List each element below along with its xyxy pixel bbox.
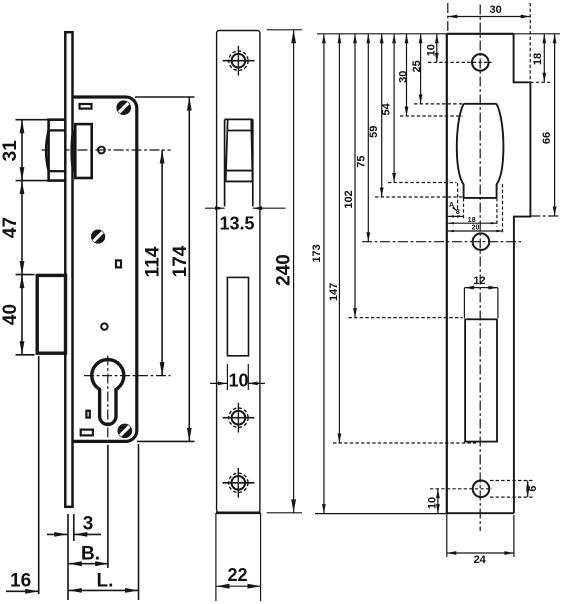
euro cylinder profile xyxy=(92,360,124,425)
svg-text:25: 25 xyxy=(411,60,423,72)
svg-text:10: 10 xyxy=(426,44,438,56)
svg-text:102: 102 xyxy=(343,190,355,208)
deadbolt cutout xyxy=(465,319,497,441)
bottom screw hole xyxy=(473,481,490,498)
dim 12 extensions xyxy=(463,288,465,318)
dim 6 xyxy=(527,481,529,498)
deadbolt (thrown, left of faceplate) xyxy=(37,275,65,353)
plate stepped right edge xyxy=(514,34,531,513)
screw hole bottom xyxy=(223,468,255,498)
plate top edge xyxy=(447,33,514,35)
lock case outline xyxy=(73,97,137,441)
dim 114 line xyxy=(161,150,163,376)
small slot left of cylinder xyxy=(86,411,89,418)
middle slot in case xyxy=(116,260,121,267)
dim 3 (faceplate thickness) xyxy=(47,533,68,535)
screw hole top xyxy=(223,46,255,76)
dim 18 (right) xyxy=(543,34,545,83)
screw top xyxy=(116,100,131,115)
faceplate outline xyxy=(217,31,260,513)
lock body (left side view) xyxy=(0,32,195,600)
svg-text:240: 240 xyxy=(274,254,295,286)
top slot in case xyxy=(80,104,92,109)
screw bottom xyxy=(118,424,133,439)
svg-text:173: 173 xyxy=(311,244,323,262)
faceplate bottom edge (thick) xyxy=(216,511,261,514)
dash-dot for 66 step reference xyxy=(530,215,561,217)
svg-text:6: 6 xyxy=(527,485,539,491)
dim 240 extension top xyxy=(267,29,303,31)
top hole centre dashes xyxy=(428,61,492,63)
svg-text:10: 10 xyxy=(426,497,438,509)
dim 30 top extensions xyxy=(447,3,449,34)
screw middle xyxy=(91,230,105,244)
dim 240 line xyxy=(293,30,295,513)
dim chain line 31/47/40 xyxy=(21,120,23,355)
middle screw hole xyxy=(473,233,490,250)
dim 20 xyxy=(448,230,503,232)
svg-text:59: 59 xyxy=(368,126,380,138)
plate bottom edge xyxy=(447,512,514,514)
strike/mounting plate view (right) xyxy=(311,3,561,566)
extension line, case bottom to 174 dim xyxy=(137,440,195,442)
svg-text:13.5: 13.5 xyxy=(219,214,254,234)
svg-text:114: 114 xyxy=(143,246,164,277)
dim 10 bottom line xyxy=(437,489,439,514)
dim 8 xyxy=(448,215,464,217)
svg-text:47: 47 xyxy=(0,217,21,238)
dim 18 (cutout) xyxy=(448,222,497,224)
dim 22 line xyxy=(216,585,261,587)
cylinder horizontal centre line xyxy=(84,375,171,377)
dim 66 (right) xyxy=(554,34,556,216)
dim 13.5 (latch cutout width) xyxy=(205,207,225,209)
latch bolt front face xyxy=(226,119,253,181)
dash for 18 step reference xyxy=(530,81,550,83)
screw hole middle xyxy=(223,403,255,433)
dashed extensions below barrel xyxy=(457,183,459,211)
dim 174 line xyxy=(188,97,190,441)
backset extension line xyxy=(107,445,109,568)
dim B. (backset) xyxy=(68,563,108,565)
dim L. (case depth) xyxy=(68,589,138,591)
latch spring lens at faceplate xyxy=(70,130,76,173)
svg-text:18: 18 xyxy=(532,53,544,65)
svg-text:L.: L. xyxy=(97,571,114,592)
svg-text:174: 174 xyxy=(170,245,191,277)
dim 75 xyxy=(367,34,369,242)
latch bolt tail xyxy=(75,124,91,178)
svg-text:147: 147 xyxy=(328,283,340,301)
dim 24 extensions xyxy=(446,515,448,557)
extension line faceplate rear xyxy=(73,514,75,541)
deadbolt cutout xyxy=(227,277,248,355)
extension line case rear xyxy=(138,444,140,600)
svg-text:22: 22 xyxy=(227,565,247,585)
dim 16 (deadbolt throw) xyxy=(6,590,39,592)
dim 24 line xyxy=(447,552,514,554)
dim 12 line xyxy=(464,287,498,289)
dim 25 xyxy=(420,34,422,104)
latch centre line xyxy=(42,149,171,151)
svg-text:10: 10 xyxy=(228,371,248,391)
extension line deadbolt face xyxy=(38,356,40,594)
latch bolt head xyxy=(46,120,65,181)
dim 30 xyxy=(406,34,408,116)
bottom reference line for 173 xyxy=(315,513,447,515)
svg-text:66: 66 xyxy=(541,132,553,144)
plate left edge xyxy=(446,34,448,515)
dim 240 extension bottom xyxy=(267,512,303,514)
svg-text:30: 30 xyxy=(397,71,409,83)
svg-text:31: 31 xyxy=(0,140,21,162)
svg-text:18: 18 xyxy=(468,217,476,224)
follower hub hole xyxy=(98,147,105,154)
faceplate front view (middle) xyxy=(205,30,302,601)
dim 31/47/40 extension lines xyxy=(16,119,49,121)
feature reference dashes (left side) xyxy=(414,103,463,105)
dim 10 (deadbolt cutout width) xyxy=(210,382,227,384)
svg-text:8: 8 xyxy=(456,209,460,216)
dim 54 xyxy=(393,34,395,183)
svg-text:20: 20 xyxy=(472,225,480,232)
dim 30 top line xyxy=(448,16,530,18)
cylinder vertical centre line xyxy=(107,356,109,446)
dim 59 xyxy=(381,34,383,197)
faceplate (edge-on bar) xyxy=(65,32,72,507)
latch cutout xyxy=(225,118,253,120)
vertical centre line xyxy=(479,5,481,532)
dim 22 extension lines xyxy=(215,513,217,601)
bottom hole centre dashes xyxy=(430,488,492,490)
top reference extension line xyxy=(317,33,560,35)
extension line faceplate front xyxy=(67,514,69,600)
small hole between deadbolt and cylinder xyxy=(101,323,107,329)
dim 173 xyxy=(323,34,325,514)
svg-text:30: 30 xyxy=(489,4,501,16)
latch barrel cutout xyxy=(457,104,504,198)
dim 10 (top hole) xyxy=(436,34,438,63)
top screw hole xyxy=(472,54,489,71)
svg-text:75: 75 xyxy=(356,155,368,167)
extension line, case top to 174 dim xyxy=(135,96,195,98)
hole tangent dashes for dim 6 xyxy=(490,480,534,482)
svg-text:16: 16 xyxy=(10,571,31,592)
svg-text:40: 40 xyxy=(0,304,21,325)
svg-text:24: 24 xyxy=(474,554,487,566)
dim 10 extension lines xyxy=(226,364,228,390)
middle hole centre line xyxy=(362,241,521,243)
svg-text:B.: B. xyxy=(81,544,100,565)
dim 102 xyxy=(354,34,356,318)
dim 147 xyxy=(338,34,340,443)
svg-text:3: 3 xyxy=(83,514,94,535)
bottom horizontal slot xyxy=(81,430,93,436)
svg-text:12: 12 xyxy=(473,275,485,287)
